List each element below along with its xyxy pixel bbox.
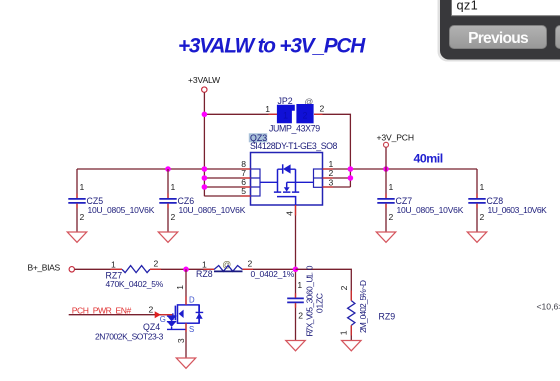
power symbol +3VALW bbox=[188, 75, 221, 92]
junction dot QZ4 drain tap bbox=[183, 267, 189, 273]
red pin stubs QZ3 right pins 1 2 3 bbox=[323, 169, 334, 187]
wire right rail bbox=[323, 168, 478, 170]
svg-text:5: 5 bbox=[304, 307, 314, 312]
red pin stubs capacitors bbox=[77, 194, 477, 308]
red pin stub QZ3 pin 4 bbox=[295, 205, 297, 216]
wire node to RZ9 bbox=[296, 269, 352, 300]
jumper JP2 bbox=[265, 96, 324, 134]
svg-text:C: C bbox=[314, 293, 324, 299]
wire QZ4 drain vertical bbox=[185, 269, 187, 305]
svg-text:S: S bbox=[189, 325, 194, 334]
find dialog shadow bbox=[438, 0, 560, 62]
svg-text:Previous: Previous bbox=[468, 30, 529, 47]
mosfet channel verticals bbox=[277, 169, 279, 191]
junction dot pin7 bbox=[202, 175, 208, 181]
svg-text:JUMP_43X79: JUMP_43X79 bbox=[269, 124, 320, 134]
mosfet substrate arrow bbox=[284, 187, 290, 191]
offpage arrow on gate wire bbox=[155, 311, 161, 318]
substrate arrow bbox=[179, 310, 184, 318]
wire JP2 pin 2 to output rail bbox=[314, 114, 350, 187]
svg-text:2N7002K_SOT23-3: 2N7002K_SOT23-3 bbox=[95, 332, 164, 342]
esd diode pair gate-source bbox=[167, 316, 176, 322]
channel bar bbox=[174, 306, 176, 321]
ground under RZ9 bbox=[342, 341, 361, 351]
ground under CZ5 bbox=[67, 232, 86, 242]
ground under CZ6 bbox=[158, 232, 177, 242]
svg-text:6: 6 bbox=[304, 290, 314, 295]
mosfet source contact feet bbox=[274, 191, 299, 193]
svg-text:2: 2 bbox=[154, 259, 159, 269]
svg-text:40mil: 40mil bbox=[414, 151, 443, 165]
junction dot pin6 bbox=[202, 184, 208, 190]
wire QZ3 gate pin4 down bbox=[295, 205, 297, 298]
capacitor CZ8 bbox=[468, 169, 547, 232]
wire RZ8 to node bbox=[243, 268, 296, 270]
wire +3VALW vertical bus bbox=[203, 92, 205, 196]
svg-text:0_0402_1%: 0_0402_1% bbox=[251, 269, 295, 279]
svg-text:Z: Z bbox=[314, 299, 324, 304]
resistor RZ8 bbox=[196, 259, 295, 280]
svg-text:<10,6>: <10,6> bbox=[537, 301, 560, 311]
svg-text:2: 2 bbox=[339, 285, 349, 290]
svg-text:2: 2 bbox=[80, 212, 85, 222]
svg-text:JP2: JP2 bbox=[278, 96, 293, 106]
ground under QZ4 bbox=[176, 358, 195, 368]
svg-text:3: 3 bbox=[176, 338, 186, 343]
svg-text:RZ8: RZ8 bbox=[196, 269, 213, 279]
resistor RZ7 bbox=[106, 259, 164, 289]
internal connection to left pins bbox=[260, 181, 278, 183]
junction dot gate node bbox=[293, 267, 299, 273]
internal connection to right pins bbox=[287, 181, 314, 183]
svg-text:0: 0 bbox=[304, 294, 314, 299]
svg-text:2: 2 bbox=[320, 104, 325, 114]
junction dot rail +3V_PCH bbox=[383, 166, 389, 172]
junction dot rail pin1 bbox=[348, 166, 354, 172]
wire pin3 stub bbox=[323, 186, 351, 188]
wire to JP2 pin 1 bbox=[204, 113, 277, 115]
wire B+_BIAS to RZ7 bbox=[75, 268, 122, 270]
red pin stubs JP2 bbox=[269, 113, 323, 115]
svg-text:0: 0 bbox=[304, 286, 314, 291]
svg-text:1: 1 bbox=[389, 182, 394, 192]
svg-text:D: D bbox=[189, 295, 195, 304]
svg-text:2: 2 bbox=[171, 212, 176, 222]
svg-text:1: 1 bbox=[297, 280, 302, 290]
power symbol +3V_PCH bbox=[377, 133, 414, 170]
svg-text:2: 2 bbox=[480, 212, 485, 222]
gate bar bbox=[172, 313, 174, 320]
svg-text:B+_BIAS: B+_BIAS bbox=[28, 263, 61, 273]
wire pin2 stub bbox=[323, 177, 351, 179]
ground under CZ7 bbox=[376, 232, 395, 242]
wire pin5 stub bbox=[204, 195, 250, 197]
svg-text:10U_0805_10V6K: 10U_0805_10V6K bbox=[179, 205, 246, 215]
node QZ3 highlight label bbox=[249, 133, 267, 143]
svg-text:1: 1 bbox=[265, 104, 270, 114]
wire pin7 stub bbox=[204, 177, 250, 179]
svg-text:0: 0 bbox=[314, 308, 324, 313]
svg-text:2: 2 bbox=[298, 311, 303, 321]
capacitor CZ5 bbox=[68, 169, 154, 232]
find dialog Next button sliver bbox=[556, 26, 560, 49]
capacitor CZ6 bbox=[159, 169, 245, 232]
capacitor CZ10 bbox=[287, 265, 324, 340]
find dialog input bbox=[452, 0, 560, 16]
svg-text:470K_0402_5%: 470K_0402_5% bbox=[106, 279, 164, 289]
svg-text:1: 1 bbox=[175, 285, 185, 290]
svg-text:RZ9: RZ9 bbox=[379, 311, 396, 321]
svg-text:2: 2 bbox=[149, 305, 154, 315]
junction dot rail CZ6 bbox=[165, 166, 171, 172]
mosfet internal body diode bbox=[278, 168, 296, 170]
svg-text:+3VALW: +3VALW bbox=[188, 75, 221, 85]
junction dot at +3VALW tap bbox=[202, 112, 208, 118]
svg-text:V: V bbox=[304, 314, 314, 320]
svg-text:R: R bbox=[304, 331, 314, 337]
svg-text:2: 2 bbox=[248, 259, 253, 269]
svg-text:1: 1 bbox=[338, 330, 348, 335]
svg-text:QZ4: QZ4 bbox=[143, 322, 160, 332]
junction dot pin2 bbox=[348, 175, 354, 181]
svg-text:1: 1 bbox=[80, 182, 85, 192]
wire QZ4 source to ground bbox=[185, 323, 187, 358]
svg-text:+3VALW to +3V_PCH: +3VALW to +3V_PCH bbox=[178, 35, 366, 58]
svg-text:1: 1 bbox=[314, 304, 324, 309]
resistor RZ9 bbox=[338, 280, 395, 340]
ground under CZ10 bbox=[286, 341, 305, 351]
svg-text:1: 1 bbox=[202, 259, 207, 269]
right pin group box pins 2 3 bbox=[314, 169, 323, 187]
svg-text:U: U bbox=[304, 277, 314, 283]
transistor QZ4 bbox=[160, 295, 204, 334]
junction dot rail +3VALW bbox=[202, 166, 208, 172]
wire pin6 stub bbox=[204, 186, 250, 188]
svg-text:qz1: qz1 bbox=[457, 0, 479, 12]
svg-text:3: 3 bbox=[329, 177, 334, 187]
net label B+_BIAS bbox=[28, 263, 75, 273]
svg-text:2: 2 bbox=[389, 212, 394, 222]
wire RZ7 to RZ8 bbox=[150, 268, 214, 270]
red pin stubs resistors bbox=[111, 269, 352, 335]
svg-text:PCH_PWR_EN#: PCH_PWR_EN# bbox=[72, 305, 132, 315]
red pin stubs QZ3 left pins 8 7 6 5 bbox=[241, 169, 251, 196]
mosfet gate plate bbox=[277, 197, 296, 205]
transistor QZ3 body box bbox=[251, 153, 323, 206]
capacitor CZ7 bbox=[377, 169, 463, 232]
title text bbox=[178, 35, 366, 58]
svg-text:SI4128DY-T1-GE3_SO8: SI4128DY-T1-GE3_SO8 bbox=[250, 141, 338, 151]
svg-text:10U_0805_10V6K: 10U_0805_10V6K bbox=[88, 205, 155, 215]
wire left rail bbox=[77, 168, 251, 170]
left pin group box pins 7 6 5 bbox=[251, 169, 261, 196]
svg-text:1: 1 bbox=[480, 182, 485, 192]
svg-text:X: X bbox=[304, 322, 314, 328]
body diode bbox=[196, 305, 204, 323]
wire PCH_PWR_EN# to QZ4 gate bbox=[69, 314, 167, 316]
svg-text:2M_0402_5%~D: 2M_0402_5%~D bbox=[358, 280, 368, 333]
svg-text:1U_0603_10V6K: 1U_0603_10V6K bbox=[488, 205, 548, 215]
red pin stubs QZ4 bbox=[161, 296, 187, 332]
svg-text:4: 4 bbox=[285, 211, 295, 216]
ground under CZ8 bbox=[467, 232, 486, 242]
svg-text:G: G bbox=[160, 315, 166, 324]
find dialog panel bbox=[440, 0, 560, 60]
svg-text:+3V_PCH: +3V_PCH bbox=[377, 133, 414, 143]
svg-text:10U_0805_10V6K: 10U_0805_10V6K bbox=[397, 205, 464, 215]
svg-text:1: 1 bbox=[111, 259, 116, 269]
svg-text:0: 0 bbox=[304, 265, 314, 270]
find dialog Previous button bbox=[450, 26, 547, 49]
svg-text:2: 2 bbox=[302, 111, 307, 121]
svg-text:3: 3 bbox=[304, 298, 314, 303]
svg-text:1: 1 bbox=[283, 111, 288, 121]
svg-text:1: 1 bbox=[171, 182, 176, 192]
